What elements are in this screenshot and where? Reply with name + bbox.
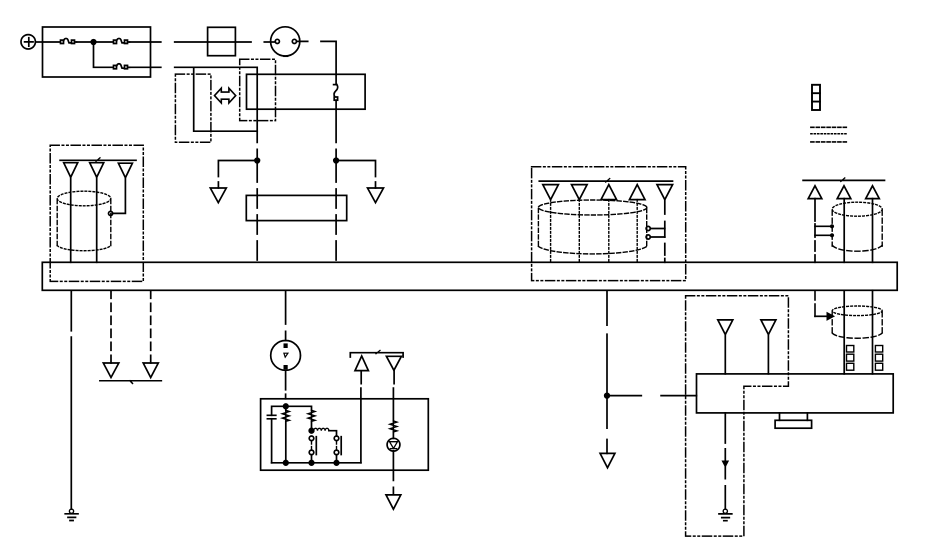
wire ECU to ground (with flow arrow) xyxy=(724,413,726,509)
tap circle 1 on cylinder CY2 xyxy=(646,226,650,230)
arrow R3 (up) xyxy=(866,186,880,199)
overline right group xyxy=(803,179,884,181)
junction dot RB input xyxy=(284,404,289,409)
connector P2 xyxy=(271,341,301,371)
junction dot node B xyxy=(334,158,339,163)
wire F2 to box edge xyxy=(130,41,151,43)
dashed wire bus to arrow tap (lower right) xyxy=(814,290,816,316)
arrow M4 (up) xyxy=(629,185,645,200)
junction dot rail 3 xyxy=(334,461,339,466)
component block R1 xyxy=(246,195,346,220)
main relay box xyxy=(247,74,366,109)
tap stub 2 xyxy=(815,234,830,236)
battery B1 positive terminal xyxy=(21,35,35,49)
wire junction down to fuse F3 xyxy=(94,42,114,67)
wire E1 to ECU xyxy=(724,335,726,374)
dash-dot harness box DB4 (middle) xyxy=(532,167,686,281)
connector pin squares column 2 xyxy=(875,346,882,371)
double-headed arrow symbol xyxy=(215,88,236,103)
indicator lamp LED1 xyxy=(387,432,400,451)
dashed wire node A to bus xyxy=(256,163,258,262)
wire P2 to relay box xyxy=(285,370,287,399)
bottom rail of relay box xyxy=(272,462,361,464)
ignition switch block xyxy=(208,27,236,55)
wire node B to off-page arrow xyxy=(336,161,375,189)
legend dashed line 1 xyxy=(811,126,848,128)
dash-dot boundary DB5 (bottom right, L-shaped) xyxy=(686,296,789,536)
legend dotted line xyxy=(811,133,848,135)
wire bus to ECU pin 1 xyxy=(843,290,845,374)
arrow E1 (down) xyxy=(718,320,733,335)
dash-dot harness box DB3 (left) xyxy=(50,145,143,281)
ECU mounting pedestal xyxy=(775,413,812,428)
junction dot rail 2 xyxy=(309,461,314,466)
junction dot node C xyxy=(605,393,610,398)
wire W2 routing loop branch xyxy=(194,67,258,131)
relay coil W2 (vertical) xyxy=(286,406,315,430)
tick on overline xyxy=(96,158,100,162)
tap stub 1 xyxy=(815,225,830,227)
wire R3 to bus xyxy=(872,199,874,263)
wire bus to junction (right middle) xyxy=(606,290,608,453)
junction dot rail 1 xyxy=(284,461,289,466)
wire E2 to ECU xyxy=(767,335,769,374)
legend connector squares xyxy=(812,85,820,110)
wire T2 to bus xyxy=(96,177,98,262)
relay contact S1 (left) xyxy=(309,436,316,463)
tap circle 2 on cylinder CY2 xyxy=(646,235,650,239)
arrow U1 (up) xyxy=(355,356,368,371)
wire W2 fuse box lower output xyxy=(151,67,258,160)
junction dot node A xyxy=(255,158,260,163)
tick on overline xyxy=(841,178,845,182)
wire lamp to off-page arrow xyxy=(392,451,394,494)
fuse F4 vertical xyxy=(334,74,338,109)
wire T3 to tap xyxy=(113,178,126,214)
arrow M5 (down) xyxy=(657,185,673,200)
arrow into cylinder CY4 xyxy=(815,315,827,317)
dashed wire bus to connector P2 xyxy=(285,290,287,340)
wire battery to fuse box xyxy=(35,41,42,43)
relay coil W1 (vertical) xyxy=(282,406,289,463)
arrow T1 xyxy=(64,163,78,178)
dotted wire M4 to bus xyxy=(636,200,638,263)
wire M5 with taps xyxy=(664,200,666,263)
wire bus to ground (left) xyxy=(70,290,72,509)
wire junction to fuse F2 xyxy=(94,41,114,43)
wire into fuse F1 xyxy=(43,41,61,43)
tap circle on cylinder CY1 xyxy=(109,211,113,215)
ECU box xyxy=(697,374,894,413)
dashed wire to connector arrow L2 xyxy=(150,290,152,363)
wire W1 fuse box to ignition block xyxy=(151,41,252,43)
arrow M1 (down) xyxy=(543,185,559,200)
junction dot coil node xyxy=(309,428,314,433)
fuse box xyxy=(43,27,151,77)
ground G1 xyxy=(65,509,78,520)
dashed wire to connector arrow L1 xyxy=(110,290,112,363)
off-page arrow A3 xyxy=(386,495,401,509)
resistor R2 xyxy=(390,421,397,432)
arrow L1 xyxy=(103,363,119,378)
wire P1 to corner xyxy=(297,41,337,74)
connector P1 xyxy=(271,27,300,56)
harness cylinder CY4 xyxy=(832,306,882,338)
off-page arrow A2 xyxy=(368,188,384,203)
tap dot 2 on cylinder CY3 xyxy=(830,233,834,237)
tick on overline xyxy=(606,179,610,183)
dash-dot connector box DB2 xyxy=(240,59,276,120)
wire F3 to box edge xyxy=(130,66,151,68)
tap stub 2 xyxy=(650,236,665,238)
off-page arrow A1 xyxy=(210,188,226,203)
wire W1 stub to connector P1 xyxy=(264,41,275,43)
tap dot 1 on cylinder CY3 xyxy=(830,224,834,228)
wire R2 to bus xyxy=(843,199,845,263)
fuse F3 xyxy=(114,64,130,69)
overline left group xyxy=(60,159,136,161)
arrow T2 xyxy=(90,163,104,178)
arrow D1 (down) xyxy=(386,356,401,370)
wire from main relay box down xyxy=(335,109,337,160)
fuse F2 xyxy=(114,38,130,43)
dotted wire M1 to bus xyxy=(550,200,552,263)
arrow M3 (up) xyxy=(601,185,617,200)
arrow M2 (down) xyxy=(572,185,588,200)
capacitor C1 xyxy=(267,406,285,463)
wire R1 with taps xyxy=(814,199,816,263)
relay coil horizontal (inductor) xyxy=(314,428,329,430)
junction dot in fuse box xyxy=(91,40,96,45)
harness cylinder CY1 xyxy=(57,191,111,251)
bracket over arrows xyxy=(350,353,403,357)
wire F1 to junction xyxy=(77,41,94,43)
wire coil to right contact xyxy=(329,431,337,436)
dotted wire M3 to bus xyxy=(608,200,610,263)
harness cylinder CY2 xyxy=(538,200,646,254)
dash-dot connector box DB1 xyxy=(175,74,211,142)
bus bar xyxy=(42,262,897,290)
wire rail up to arrow U1 xyxy=(360,371,362,463)
ground G2 xyxy=(719,509,732,521)
dashed wire node C to ECU xyxy=(607,395,697,397)
wire node A to off-page arrow xyxy=(218,161,257,189)
relay contact S2 (right) xyxy=(334,436,341,463)
arrow T3 xyxy=(118,163,132,178)
tap stub 1 xyxy=(650,228,665,230)
overline middle group xyxy=(539,180,672,182)
relay box RB xyxy=(261,399,429,470)
dotted wire M2 to bus xyxy=(578,200,580,263)
arrow R1 (up) xyxy=(808,186,822,199)
wire D1 into relay box xyxy=(392,370,395,421)
arrow E2 (down) xyxy=(761,320,776,335)
tick on bracket xyxy=(376,350,380,353)
flow arrow on ground wire xyxy=(722,461,728,467)
wire T1 to bus xyxy=(70,177,72,262)
dashed wire node B to bus xyxy=(335,163,337,262)
arrow L2 xyxy=(143,363,158,378)
arrow R2 (up) xyxy=(837,186,851,199)
underline connector bar xyxy=(100,381,162,384)
legend dashed line 2 xyxy=(811,141,848,143)
harness cylinder CY3 xyxy=(832,202,882,251)
connector pin squares column 1 xyxy=(847,346,854,371)
wire bus to ECU pin 2 xyxy=(872,290,874,374)
off-page arrow A4 xyxy=(600,453,615,467)
fuse F1 xyxy=(61,38,77,43)
